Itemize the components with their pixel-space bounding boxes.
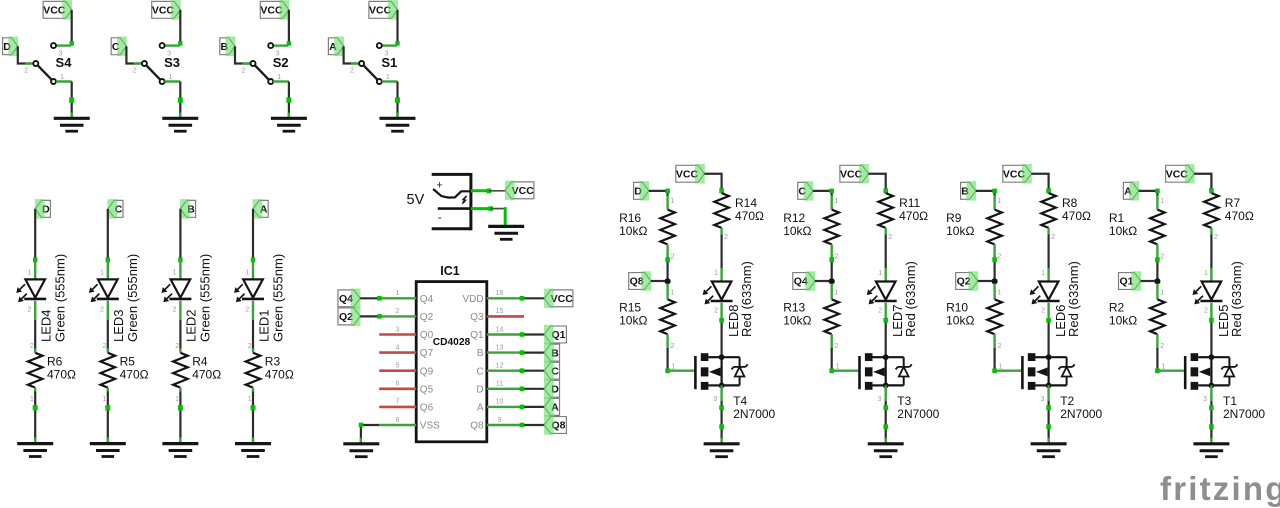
resistor R15 10k xyxy=(619,284,675,351)
label T4 2N7000 xyxy=(733,394,775,421)
wire R1 to node Q1 xyxy=(1155,257,1160,281)
svg-text:R16: R16 xyxy=(619,211,641,225)
LED LED7 pin 1 (anode) xyxy=(878,268,885,282)
switch S3 lever xyxy=(146,65,160,79)
svg-text:2: 2 xyxy=(670,343,674,350)
net label D above LED4 xyxy=(35,199,51,219)
wire A to LED1 anode xyxy=(251,209,255,262)
svg-text:1: 1 xyxy=(1160,289,1164,296)
svg-text:2N7000: 2N7000 xyxy=(733,407,775,421)
switch S4 pin 3 xyxy=(51,43,71,57)
svg-text:1: 1 xyxy=(836,363,840,370)
svg-text:R9: R9 xyxy=(946,211,962,225)
svg-text:R1: R1 xyxy=(1109,211,1125,225)
IC1 pin 6 (Q5) xyxy=(379,381,433,396)
ground symbol below S4 xyxy=(54,118,90,131)
svg-text:3: 3 xyxy=(1040,396,1044,403)
net label D at R16 xyxy=(634,181,650,201)
net label Q2 xyxy=(956,271,979,291)
svg-text:2: 2 xyxy=(724,234,728,241)
net label D at IC1 xyxy=(544,379,560,399)
ground symbol below S1 xyxy=(380,118,416,131)
switch S1 pin 1 xyxy=(377,74,398,84)
svg-text:3: 3 xyxy=(1203,396,1207,403)
label T1 2N7000 xyxy=(1223,394,1265,421)
svg-text:1: 1 xyxy=(997,198,1001,205)
svg-text:Q7: Q7 xyxy=(420,348,434,359)
wire IC1 to Q8 xyxy=(520,423,545,428)
svg-text:10kΩ: 10kΩ xyxy=(946,314,974,328)
svg-text:7: 7 xyxy=(396,399,400,406)
wire LED8 to T4 drain xyxy=(719,318,724,357)
wire R6 to ground xyxy=(33,392,38,444)
IC1 pin 3 (Q0) xyxy=(379,326,433,341)
ground symbol below T2 xyxy=(1031,444,1067,457)
wire R10 to T2 gate xyxy=(992,348,997,373)
svg-text:2: 2 xyxy=(1051,234,1055,241)
junction node Q8 xyxy=(665,278,671,284)
resistor R8 470 ohm xyxy=(1041,190,1091,241)
resistor R1 10k xyxy=(1109,196,1165,261)
svg-text:Red (633nm): Red (633nm) xyxy=(903,261,918,337)
svg-text:R7: R7 xyxy=(1225,196,1241,210)
label T3 2N7000 xyxy=(897,394,939,421)
svg-text:1: 1 xyxy=(60,74,64,81)
wire IC1 to A xyxy=(520,405,545,410)
svg-text:CD4028: CD4028 xyxy=(433,337,471,348)
svg-text:VSS: VSS xyxy=(420,421,440,432)
wire R15 to T4 gate xyxy=(665,348,670,373)
wire C to S3 pin 2 xyxy=(126,46,140,63)
wire VCC to S3 pin 3 xyxy=(178,10,182,46)
net label B at IC1 xyxy=(544,343,560,363)
switch S2 pin 3 xyxy=(268,43,288,57)
switch S3 pin 3 xyxy=(160,43,180,57)
IC1 pin 10 (A) xyxy=(477,399,522,414)
svg-text:2: 2 xyxy=(175,343,179,350)
wire R4 to ground xyxy=(178,392,183,444)
svg-text:R11: R11 xyxy=(899,196,920,210)
IC1 pin 9 (Q8) xyxy=(470,417,522,432)
switch S4 label xyxy=(56,55,73,70)
svg-text:2: 2 xyxy=(350,68,354,75)
svg-text:1: 1 xyxy=(670,198,674,205)
switch S3 pin 2 xyxy=(133,61,147,75)
svg-text:2: 2 xyxy=(100,307,104,314)
svg-text:Q5: Q5 xyxy=(420,384,434,395)
svg-text:1: 1 xyxy=(27,269,31,276)
svg-text:470Ω: 470Ω xyxy=(1225,209,1254,223)
svg-text:R5: R5 xyxy=(120,355,136,369)
LED LED8 xyxy=(703,282,733,305)
net label B at R9 xyxy=(961,181,977,201)
svg-text:Q8: Q8 xyxy=(470,421,484,432)
svg-text:2: 2 xyxy=(878,308,882,315)
resistor R4 470 ohm xyxy=(173,343,221,403)
label LED7 Red (633nm) xyxy=(890,261,918,337)
svg-text:11: 11 xyxy=(496,381,503,388)
LED LED2 pin 1 (anode) xyxy=(173,260,181,280)
svg-text:10kΩ: 10kΩ xyxy=(783,224,811,238)
VCC power flag above S1 xyxy=(369,0,398,20)
LED LED6 xyxy=(1030,282,1060,305)
LED LED4 pin 1 (anode) xyxy=(27,260,35,280)
svg-text:470Ω: 470Ω xyxy=(47,368,76,382)
svg-text:VCC: VCC xyxy=(551,293,574,305)
op-amp U1 : IC1 CD4028 body xyxy=(416,282,487,442)
ground symbol at battery xyxy=(488,226,524,239)
wire IC1 to D xyxy=(520,387,545,392)
VCC power flag at R11 xyxy=(840,164,869,184)
transistor T3 2N7000 xyxy=(832,353,912,390)
switch S1 label xyxy=(381,55,397,70)
IC1 pin 1 (Q4) xyxy=(379,290,433,305)
svg-text:2: 2 xyxy=(1041,308,1045,315)
svg-text:9: 9 xyxy=(498,417,502,424)
net label A at IC1 xyxy=(544,397,560,417)
svg-text:3: 3 xyxy=(713,396,717,403)
svg-text:R6: R6 xyxy=(47,355,63,369)
resistor R7 470 ohm xyxy=(1204,190,1254,241)
wire B to LED2 anode xyxy=(178,209,182,262)
resistor R6 470 ohm xyxy=(28,343,76,403)
svg-text:2: 2 xyxy=(1204,308,1208,315)
net label A (S1) xyxy=(328,37,344,57)
IC1 pin 7 (Q6) xyxy=(379,399,433,414)
svg-text:2: 2 xyxy=(245,307,249,314)
svg-text:2: 2 xyxy=(835,254,839,261)
LED LED6 pin 1 (anode) xyxy=(1041,268,1048,282)
wire D to LED4 anode xyxy=(33,209,37,262)
battery BAT1 5V label xyxy=(407,192,425,208)
svg-text:Q0: Q0 xyxy=(420,330,434,341)
wire LED6 to T2 drain xyxy=(1046,318,1051,357)
IC1 pin 16 (VDD) xyxy=(462,290,521,305)
ground symbol below R4 xyxy=(162,444,198,457)
svg-text:2: 2 xyxy=(133,68,137,75)
svg-text:1: 1 xyxy=(386,74,390,81)
svg-text:LED3: LED3 xyxy=(111,309,126,342)
svg-text:1: 1 xyxy=(173,269,177,276)
svg-text:Q6: Q6 xyxy=(420,403,434,414)
resistor R12 10k xyxy=(783,196,839,261)
label LED4 Green (555nm) xyxy=(39,254,68,342)
svg-text:A: A xyxy=(477,403,484,414)
svg-text:10: 10 xyxy=(496,399,504,406)
transistor T4 2N7000 xyxy=(668,353,748,390)
svg-text:R4: R4 xyxy=(192,355,208,369)
resistor R14 470 ohm xyxy=(714,190,764,241)
svg-text:3: 3 xyxy=(877,396,881,403)
svg-text:1: 1 xyxy=(1161,363,1165,370)
wire IC1 to B xyxy=(520,350,545,355)
svg-text:16: 16 xyxy=(496,290,504,297)
svg-text:1: 1 xyxy=(1041,270,1045,277)
svg-text:15: 15 xyxy=(496,308,504,315)
svg-text:470Ω: 470Ω xyxy=(735,209,764,223)
LED LED1 xyxy=(234,279,264,302)
svg-text:2: 2 xyxy=(1160,254,1164,261)
wire B to R9 xyxy=(976,189,997,197)
LED LED3 pin 2 (cathode) xyxy=(100,301,108,320)
svg-text:Red (633nm): Red (633nm) xyxy=(1066,261,1081,337)
wire Q1 to junction xyxy=(1141,280,1155,282)
transistor T1 2N7000 xyxy=(1157,353,1237,390)
LED LED2 xyxy=(162,279,192,302)
wire VCC to R14 xyxy=(704,174,723,194)
net label Q4 xyxy=(793,271,816,291)
svg-text:Green (555nm): Green (555nm) xyxy=(53,254,68,342)
VCC power flag at R14 xyxy=(676,164,705,184)
ground symbol below T1 xyxy=(1193,444,1229,457)
ground symbol below T3 xyxy=(868,444,904,457)
net label C (S3) xyxy=(111,37,127,57)
svg-text:Green (555nm): Green (555nm) xyxy=(270,254,285,342)
svg-text:1: 1 xyxy=(396,290,400,297)
svg-text:470Ω: 470Ω xyxy=(120,368,149,382)
ground symbol below R3 xyxy=(235,444,271,457)
wire R16 to node Q8 xyxy=(665,257,670,281)
LED LED5 xyxy=(1193,282,1223,305)
svg-text:1: 1 xyxy=(277,74,281,81)
svg-text:Q1: Q1 xyxy=(470,330,484,341)
label LED3 Green (555nm) xyxy=(111,254,140,342)
net label Q4 at IC1 xyxy=(338,289,361,309)
wire LED5 to T1 drain xyxy=(1209,318,1214,357)
wire R13 to T3 gate xyxy=(829,348,834,373)
wire S2 pin 1 to ground xyxy=(286,82,291,119)
svg-text:C: C xyxy=(476,366,483,377)
svg-text:VCC: VCC xyxy=(512,185,535,197)
svg-text:8: 8 xyxy=(396,417,400,424)
switch S2 lever xyxy=(255,65,269,79)
label LED5 Red (633nm) xyxy=(1216,261,1244,337)
svg-text:470Ω: 470Ω xyxy=(192,368,221,382)
svg-text:4: 4 xyxy=(396,344,400,351)
svg-text:14: 14 xyxy=(496,326,504,333)
wire VCC to R11 xyxy=(869,174,889,194)
switch S3 pin 1 xyxy=(160,74,181,84)
svg-text:470Ω: 470Ω xyxy=(265,368,294,382)
svg-text:R13: R13 xyxy=(783,301,805,315)
VCC power flag above S3 xyxy=(152,0,181,20)
wire LED4 to R6 xyxy=(34,320,36,350)
switch S4 pin 1 xyxy=(51,74,72,84)
wire Q4 to IC1 xyxy=(360,296,382,301)
svg-text:10kΩ: 10kΩ xyxy=(619,314,647,328)
IC1 pin 11 (D) xyxy=(476,381,522,396)
LED LED1 pin 2 (cathode) xyxy=(245,301,253,320)
wire IC1 to Q1 xyxy=(520,332,545,337)
net label B (S2) xyxy=(220,37,236,57)
svg-text:2: 2 xyxy=(103,343,107,350)
wire R12 to node Q4 xyxy=(829,257,834,281)
svg-text:1: 1 xyxy=(997,289,1001,296)
svg-text:LED2: LED2 xyxy=(184,309,199,342)
LED LED7 xyxy=(867,282,897,305)
net label Q8 at IC1 xyxy=(544,415,567,435)
svg-text:1: 1 xyxy=(100,269,104,276)
switch S2 pin 1 xyxy=(268,74,289,84)
net label Q1 xyxy=(1119,271,1142,291)
svg-text:1: 1 xyxy=(175,396,179,403)
svg-text:-: - xyxy=(438,210,442,224)
fritzing watermark logo xyxy=(1160,470,1280,507)
svg-text:R2: R2 xyxy=(1109,301,1125,315)
resistor R5 470 ohm xyxy=(101,343,149,403)
net label C at IC1 xyxy=(544,361,560,381)
svg-text:1: 1 xyxy=(103,396,107,403)
LED LED5 pin 1 (anode) xyxy=(1204,268,1211,282)
svg-text:Red (633nm): Red (633nm) xyxy=(1229,261,1244,337)
IC1 pin 4 (Q7) xyxy=(379,344,433,359)
wire VCC to S2 pin 3 xyxy=(287,10,291,46)
switch S2 label xyxy=(273,55,289,70)
switch S2 pin 2 xyxy=(241,61,255,75)
net label A at R1 xyxy=(1123,181,1139,201)
svg-text:T1: T1 xyxy=(1223,394,1237,408)
VCC power flag at R8 xyxy=(1003,164,1032,184)
svg-text:2: 2 xyxy=(241,68,245,75)
svg-text:LED1: LED1 xyxy=(256,309,271,342)
svg-text:2: 2 xyxy=(1214,234,1218,241)
svg-text:Q4: Q4 xyxy=(420,294,434,305)
svg-text:S3: S3 xyxy=(164,55,180,70)
wire R7 to LED5 xyxy=(1210,235,1212,271)
svg-text:2: 2 xyxy=(714,308,718,315)
svg-text:T3: T3 xyxy=(897,394,911,408)
svg-text:+: + xyxy=(436,180,442,192)
net label Q1 at IC1 xyxy=(544,325,567,345)
svg-text:S4: S4 xyxy=(56,55,73,70)
LED LED6 pin 2 (cathode) xyxy=(1041,303,1048,319)
svg-text:fritzing: fritzing xyxy=(1160,470,1280,507)
wire D to S4 pin 2 xyxy=(18,46,32,63)
svg-text:1: 1 xyxy=(999,363,1003,370)
ground symbol below T4 xyxy=(704,444,740,457)
svg-text:10kΩ: 10kΩ xyxy=(946,224,974,238)
svg-text:470Ω: 470Ω xyxy=(1062,209,1091,223)
wire S4 pin 1 to ground xyxy=(69,82,74,119)
svg-text:Q9: Q9 xyxy=(420,366,434,377)
battery BAT1 xyxy=(432,173,471,230)
junction node Q4 xyxy=(829,278,835,284)
svg-text:2: 2 xyxy=(30,343,34,350)
svg-text:3: 3 xyxy=(396,326,400,333)
svg-text:R10: R10 xyxy=(946,301,968,315)
net label A above LED1 xyxy=(253,199,269,219)
IC1 pin 2 (Q2) xyxy=(379,308,433,323)
VCC power flag at IC1 VDD xyxy=(544,289,573,309)
svg-text:1: 1 xyxy=(1160,198,1164,205)
LED LED3 pin 1 (anode) xyxy=(100,260,108,280)
wire battery + to VCC xyxy=(471,189,505,194)
wire LED3 to R5 xyxy=(107,320,109,350)
LED LED2 pin 2 (cathode) xyxy=(173,301,181,320)
transistor T2 2N7000 xyxy=(995,353,1075,390)
wire T2 source to ground xyxy=(1040,385,1051,443)
LED LED4 pin 2 (cathode) xyxy=(27,301,35,320)
ground symbol below S2 xyxy=(271,118,307,131)
net label D (S4) xyxy=(3,37,19,57)
wire R3 to ground xyxy=(251,392,256,444)
svg-text:2: 2 xyxy=(1160,343,1164,350)
IC1 pin 5 (Q9) xyxy=(379,363,433,378)
svg-text:2: 2 xyxy=(173,307,177,314)
wire battery - to ground xyxy=(471,206,505,226)
svg-text:LED4: LED4 xyxy=(39,309,54,342)
svg-text:1: 1 xyxy=(169,74,173,81)
svg-text:1: 1 xyxy=(248,396,252,403)
svg-text:Q2: Q2 xyxy=(420,312,434,323)
svg-text:R12: R12 xyxy=(783,211,805,225)
svg-text:1: 1 xyxy=(245,269,249,276)
wire VSS to ground xyxy=(359,423,380,444)
label LED1 Green (555nm) xyxy=(256,254,285,342)
wire R8 to LED6 xyxy=(1047,235,1049,271)
svg-text:VDD: VDD xyxy=(462,294,483,305)
wire R11 to LED7 xyxy=(885,235,887,271)
svg-text:2N7000: 2N7000 xyxy=(1223,407,1265,421)
LED LED7 pin 2 (cathode) xyxy=(878,303,885,319)
IC1 pin 13 (B) xyxy=(477,344,522,359)
svg-text:T2: T2 xyxy=(1060,394,1074,408)
svg-text:470Ω: 470Ω xyxy=(899,209,928,223)
wire T3 source to ground xyxy=(877,385,888,443)
LED LED8 pin 1 (anode) xyxy=(714,268,721,282)
wire IC1 to C xyxy=(520,368,545,373)
svg-text:R8: R8 xyxy=(1062,196,1078,210)
LED LED1 pin 1 (anode) xyxy=(245,260,253,280)
resistor R9 10k xyxy=(946,196,1002,261)
svg-text:1: 1 xyxy=(1204,270,1208,277)
label LED2 Green (555nm) xyxy=(184,254,213,342)
wire IC1 to VCC xyxy=(520,296,545,301)
wire Q2 to junction xyxy=(978,280,992,282)
junction node Q1 xyxy=(1154,278,1160,284)
svg-text:Green (555nm): Green (555nm) xyxy=(125,254,140,342)
resistor R16 10k xyxy=(619,196,675,261)
svg-text:R3: R3 xyxy=(265,355,281,369)
svg-text:IC1: IC1 xyxy=(440,264,460,278)
svg-text:D: D xyxy=(476,384,483,395)
svg-text:2: 2 xyxy=(888,234,892,241)
svg-text:1: 1 xyxy=(670,289,674,296)
VCC power flag at R7 xyxy=(1166,164,1195,184)
VCC power flag at battery xyxy=(505,181,534,201)
LED LED5 pin 2 (cathode) xyxy=(1204,303,1211,319)
wire R2 to T1 gate xyxy=(1155,348,1160,373)
label LED6 Red (633nm) xyxy=(1053,261,1081,337)
svg-text:13: 13 xyxy=(496,344,504,351)
ground symbol below R5 xyxy=(90,444,126,457)
svg-text:1: 1 xyxy=(878,270,882,277)
net label B above LED2 xyxy=(180,199,196,219)
wire C to R12 xyxy=(813,189,834,197)
ground symbol below S3 xyxy=(162,118,198,131)
VCC power flag above S4 xyxy=(43,0,72,20)
wire R9 to node Q2 xyxy=(992,257,997,281)
ground symbol below R6 xyxy=(17,444,53,457)
svg-text:S2: S2 xyxy=(273,55,289,70)
svg-text:2N7000: 2N7000 xyxy=(897,407,939,421)
svg-text:2: 2 xyxy=(835,343,839,350)
wire T1 source to ground xyxy=(1203,385,1214,443)
resistor R10 10k xyxy=(946,284,1002,351)
IC1 pin 14 (Q1) xyxy=(470,326,522,341)
wire VCC to R8 xyxy=(1031,174,1051,194)
wire S3 pin 1 to ground xyxy=(178,82,183,119)
